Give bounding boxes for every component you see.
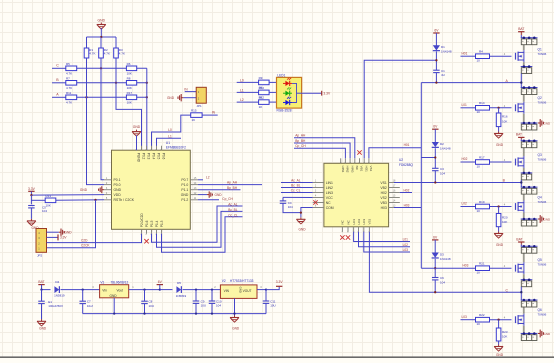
svg-text:GND: GND (98, 18, 106, 22)
wire HO1 from U2 pin7 with H01 label (369, 143, 421, 158)
svg-text:Ac_AL: Ac_AL (228, 203, 238, 207)
U2 right pins VS1 VB2 HO2 VS2 VB3 HO3 (380, 180, 399, 210)
svg-text:P0.4: P0.4 (152, 153, 156, 160)
resistor R6 (126, 62, 136, 76)
resistor R11 (66, 91, 77, 105)
svg-text:VIN: VIN (224, 289, 230, 293)
node A row (52, 93, 148, 99)
svg-text:GND: GND (110, 294, 118, 298)
svg-text:LED1: LED1 (277, 73, 285, 77)
svg-text:GND: GND (232, 326, 240, 330)
U1 left pins P0.1 P0.0 GND VDD RSTb (104, 177, 135, 202)
wire to D5 (160, 289, 173, 291)
svg-text:R13: R13 (46, 194, 52, 198)
wire V2 GND down (234, 298, 236, 315)
svg-text:3.3V: 3.3V (276, 280, 284, 284)
wire from MCU P0.4 to R15 (152, 115, 191, 150)
LED blue element (283, 97, 292, 105)
wire R3 column to MCU P0.2 (116, 58, 142, 150)
svg-text:GND: GND (298, 228, 306, 232)
svg-text:L01: L01 (403, 238, 409, 242)
wire R21 to Q5 gate (490, 264, 512, 268)
ground GND below C5 (27, 219, 39, 230)
svg-text:VDD: VDD (114, 193, 122, 197)
wire JP1 pin1 (185, 91, 197, 93)
svg-text:10: 10 (477, 271, 481, 275)
svg-text:R17: R17 (479, 155, 485, 159)
resistor R12 (259, 96, 270, 110)
svg-text:EFM8BB10F2: EFM8BB10F2 (166, 146, 186, 150)
svg-text:100uF/50V: 100uF/50V (48, 304, 63, 308)
svg-text:VS1: VS1 (380, 181, 387, 185)
wire R13 to RSTb (56, 199, 104, 201)
svg-text:P1.2: P1.2 (181, 198, 188, 202)
svg-text:4.7K: 4.7K (66, 86, 72, 90)
LED green element (283, 87, 292, 95)
wire LO2 to L02 label (359, 232, 411, 247)
svg-text:C3: C3 (440, 167, 444, 171)
svg-text:1N4148: 1N4148 (441, 50, 452, 54)
power 3.3V at JP2 pin3 (47, 234, 68, 240)
resistor R17 (126, 91, 136, 105)
capacitor C1 (433, 69, 445, 83)
wire ground rail (83, 312, 266, 314)
svg-text:P0.7: P0.7 (181, 178, 188, 182)
transistor Q5 high-side phase C (514, 245, 547, 282)
svg-text:C1: C1 (441, 69, 445, 73)
resistor R1 (84, 37, 95, 58)
resistor R20 pulldown (496, 207, 508, 232)
svg-text:3.3V: 3.3V (28, 187, 36, 191)
svg-text:C2D: C2D (81, 238, 88, 242)
svg-text:C4: C4 (288, 201, 292, 205)
op-amp U1 MCU EFM8BB10F2 body (112, 150, 191, 229)
resistor R15 (191, 108, 202, 122)
svg-text:GND: GND (544, 332, 552, 336)
power 3.3V at LED1 (302, 91, 331, 96)
transistor Q2 low-side phase A (514, 86, 547, 123)
net label L03 and wire to R22 (461, 315, 476, 320)
bottom window border (0, 356, 554, 358)
svg-text:LO2: LO2 (357, 218, 361, 224)
svg-text:H03: H03 (404, 203, 410, 207)
capacitor C3 (432, 167, 445, 183)
svg-text:GND: GND (496, 143, 504, 147)
svg-text:R8: R8 (127, 76, 131, 80)
net label L2 on P0.7 (198, 176, 210, 180)
wire H03 row to R21 (421, 267, 475, 269)
svg-text:VS3: VS3 (368, 218, 372, 224)
svg-text:10U: 10U (270, 304, 276, 308)
net label L0 (168, 128, 172, 132)
svg-text:VB1: VB1 (360, 166, 364, 172)
junction dot C line (434, 288, 508, 293)
U2 left pins LIN1-3 VCC NC COM (313, 180, 334, 210)
svg-text:10: 10 (477, 110, 481, 114)
Q3 source pads to phase B node (520, 172, 532, 187)
wire Ap_AH into HIN pin (294, 134, 355, 159)
wire D4 to V1 (61, 285, 100, 291)
net label L0 wire to R9 (237, 78, 259, 82)
wire D1 to C1 (435, 52, 437, 71)
svg-text:BAT: BAT (516, 133, 522, 137)
wire JP2 pin2 C2D to MCU (47, 234, 142, 243)
svg-text:D3: D3 (440, 253, 444, 257)
svg-text:Vout: Vout (117, 288, 123, 292)
ground GND below U2 COM (296, 217, 306, 231)
svg-text:VOUT: VOUT (243, 289, 252, 293)
svg-text:D4: D4 (55, 280, 59, 284)
diode D5 1N5819 (176, 281, 187, 298)
svg-text:GND: GND (114, 188, 122, 192)
svg-text:70N06: 70N06 (538, 262, 547, 266)
svg-text:Q4: Q4 (538, 196, 542, 200)
U1 bottom pins P2.0/C2D P1.6 P1.5 P1.4 P1.3 (140, 213, 164, 236)
transistor Q3 high-side phase B (514, 139, 547, 175)
svg-text:GND: GND (167, 96, 175, 100)
wire phase A line (421, 79, 521, 84)
svg-text:GND: GND (238, 287, 242, 293)
diode D3 1N4148 (432, 253, 451, 261)
svg-text:R16: R16 (502, 115, 508, 119)
svg-text:H02: H02 (381, 191, 387, 195)
svg-text:P1.6: P1.6 (145, 220, 149, 227)
svg-text:4.7K: 4.7K (66, 101, 72, 105)
svg-text:L1: L1 (240, 88, 244, 92)
wire right riser (420, 83, 422, 269)
wire COM to ground (300, 208, 313, 218)
svg-text:70N06: 70N06 (538, 157, 547, 161)
wire H02 stub from U2 (400, 188, 412, 192)
svg-text:Cc_CL: Cc_CL (291, 189, 301, 193)
svg-text:BAT: BAT (38, 280, 44, 284)
svg-text:VB2: VB2 (380, 186, 387, 190)
resistor R10 (259, 86, 270, 100)
wire R22 to Q6 gate (490, 316, 512, 321)
power 6V rail tap (157, 280, 163, 291)
svg-text:70N06: 70N06 (538, 100, 547, 104)
svg-text:10: 10 (477, 322, 481, 326)
resistor R4 (476, 50, 490, 63)
resistor R3 (114, 37, 125, 58)
svg-text:Q6: Q6 (538, 308, 542, 312)
wire VB2 link (421, 157, 435, 159)
svg-text:78L06/08/12: 78L06/08/12 (111, 280, 129, 284)
svg-text:Ap_AH: Ap_AH (227, 181, 238, 185)
wire 3.3V to R13 and C5 (31, 195, 45, 204)
capacitor C8 (141, 290, 154, 314)
regulator V1 78L06 (100, 280, 129, 298)
svg-text:U2: U2 (399, 158, 403, 162)
svg-text:C2CK: C2CK (81, 244, 90, 248)
wire VB1 riser from U2 pin6 (364, 60, 436, 158)
wire D5 to V2 (183, 285, 221, 291)
svg-text:VCC: VCC (326, 196, 334, 200)
svg-text:10K: 10K (46, 204, 51, 208)
svg-text:3.3V: 3.3V (60, 236, 67, 240)
net label C2CK (81, 244, 90, 248)
svg-text:HIN1: HIN1 (341, 166, 345, 173)
svg-text:R6: R6 (127, 62, 131, 66)
svg-text:R9: R9 (259, 76, 263, 80)
svg-text:L03: L03 (462, 315, 468, 319)
wire top bus (87, 36, 117, 38)
svg-text:H01: H01 (462, 51, 468, 55)
wire Bc_BL from P1.4 (157, 208, 243, 247)
svg-text:P0.0: P0.0 (114, 183, 121, 187)
svg-text:V2: V2 (222, 279, 226, 283)
diode D2 1N4148 (432, 142, 451, 150)
svg-text:10K: 10K (127, 101, 132, 105)
U1 top pins PGND P0.2-P0.6 (135, 146, 166, 163)
wire R12 to LED1 (269, 101, 276, 103)
resistor R7 (66, 76, 77, 90)
svg-text:VS2: VS2 (380, 196, 387, 200)
svg-text:RGB-3528: RGB-3528 (277, 109, 292, 113)
svg-text:4.7K: 4.7K (104, 52, 110, 56)
svg-text:HT7533/HT7133: HT7533/HT7133 (230, 279, 254, 283)
node C row (52, 64, 147, 70)
svg-text:P2.0/C2D: P2.0/C2D (140, 213, 144, 228)
capacitor C9 (193, 290, 206, 314)
resistor R8 (126, 76, 136, 90)
svg-text:1N5819: 1N5819 (54, 293, 65, 297)
svg-text:Q2: Q2 (538, 96, 542, 100)
wire R1 column to MCU P0.0 (87, 58, 105, 185)
svg-text:H03: H03 (463, 264, 469, 268)
wire RSTb to JP2 C2CK (47, 200, 96, 248)
wire R17 to Q3 gate (490, 158, 512, 162)
svg-text:BAT: BAT (516, 237, 522, 241)
LED red element (283, 78, 292, 86)
junction dot B line (434, 179, 505, 184)
svg-text:P1.3: P1.3 (160, 220, 164, 227)
Q2 source pads and ground (521, 119, 551, 130)
svg-text:D5: D5 (177, 281, 181, 285)
svg-text:R17: R17 (127, 91, 133, 95)
svg-text:10K: 10K (127, 86, 132, 90)
svg-text:GND: GND (80, 188, 88, 192)
Q6 source pads and ground (521, 330, 551, 341)
svg-text:GND: GND (544, 217, 552, 221)
wire Bp_BH from P1.1 (198, 186, 241, 190)
svg-text:4.7K: 4.7K (119, 52, 125, 56)
wire Cp_CH from P1.2 (198, 197, 233, 201)
svg-text:P0.6: P0.6 (162, 153, 166, 160)
resistor R2 (99, 37, 110, 58)
svg-text:Cc_CL: Cc_CL (228, 213, 238, 217)
svg-text:L1: L1 (168, 135, 172, 139)
power BAT phase B (516, 133, 525, 141)
wire Ac_AL to LIN1 (281, 179, 313, 183)
resistor R22 (476, 313, 490, 326)
transistor Q1 high-side phase A (514, 36, 547, 69)
ground sideways at U1 right GND pin12 (198, 191, 222, 197)
svg-text:C6: C6 (440, 276, 444, 280)
wire VS1 B line (394, 182, 521, 184)
resistor R21 gate (463, 262, 490, 275)
svg-text:P0.3: P0.3 (147, 153, 151, 160)
capacitor C11 (263, 290, 276, 314)
net label L1 wire to R10 (237, 88, 259, 92)
capacitor C10 (209, 290, 222, 314)
svg-text:GND: GND (181, 193, 189, 197)
svg-text:LIN2: LIN2 (326, 186, 333, 190)
ground GND below V2 (230, 316, 240, 331)
wire V1 out (129, 285, 160, 291)
power BAT phase A (518, 27, 524, 38)
wire neutral bus to MCU P0.3 (146, 68, 148, 150)
svg-text:104: 104 (288, 205, 293, 209)
svg-text:104: 104 (216, 304, 221, 308)
wire HO3 from U2 with H03 label (394, 203, 421, 207)
svg-text:R11: R11 (66, 91, 72, 95)
svg-text:Ap_AH: Ap_AH (295, 134, 306, 138)
resistor R14 (476, 101, 490, 114)
wire Ac_AL from P1.5 (152, 203, 243, 243)
regulator V2 HT7533 (220, 279, 257, 298)
svg-text:Bc_BL: Bc_BL (228, 208, 238, 212)
wire Bp_BH into HIN pin (294, 139, 350, 159)
svg-text:V1: V1 (100, 280, 104, 284)
svg-text:10K: 10K (127, 72, 132, 76)
diode D1 1N4148 (433, 45, 452, 53)
svg-text:H03: H03 (381, 206, 387, 210)
Q4 source pads and ground (521, 215, 551, 226)
svg-text:Q3: Q3 (538, 153, 542, 157)
capacitor C4 (280, 197, 313, 212)
ground sideways at U1 GND pin3 (80, 186, 104, 193)
wire R2 column to MCU P0.1 (101, 58, 104, 180)
svg-text:70N06: 70N06 (538, 312, 547, 316)
wire VS3 to phase C node (369, 232, 521, 292)
svg-text:10K: 10K (502, 335, 507, 339)
svg-text:Bc_BL: Bc_BL (291, 184, 301, 188)
LED LED1 RGB-3528 body (277, 73, 302, 112)
resistor R23 pulldown (496, 320, 508, 345)
svg-text:GND: GND (544, 121, 552, 125)
svg-text:GND: GND (39, 326, 47, 330)
svg-text:L01: L01 (462, 103, 468, 107)
svg-text:R19: R19 (479, 200, 485, 204)
LED common cathode wire (292, 83, 302, 102)
svg-text:10: 10 (477, 59, 481, 63)
svg-text:Ac_AL: Ac_AL (291, 179, 301, 183)
connector JP1 (196, 87, 206, 108)
svg-text:H02: H02 (404, 188, 410, 192)
svg-text:L2: L2 (240, 98, 244, 102)
svg-text:Cp_CH: Cp_CH (295, 144, 306, 148)
svg-text:R14: R14 (479, 101, 485, 105)
svg-text:10uf: 10uf (87, 304, 93, 308)
ground GND below R23 (494, 345, 504, 357)
svg-text:P0.2: P0.2 (142, 153, 146, 160)
svg-text:1K: 1K (259, 105, 263, 109)
svg-text:1N5819: 1N5819 (176, 294, 187, 298)
svg-text:LO1: LO1 (352, 218, 356, 224)
wire Cp_CH into HIN pin (294, 144, 345, 158)
capacitor C7 (79, 290, 92, 314)
svg-text:L0: L0 (240, 78, 244, 82)
wire VDD line (30, 194, 104, 196)
U2 top pins (339, 158, 373, 172)
U2 bottom pins NC NC LO1 LO2 LO3 VS3 (341, 218, 372, 233)
capacitor C6 (432, 276, 445, 292)
wire D2 to C3 (434, 148, 436, 168)
svg-text:D2: D2 (440, 142, 444, 146)
svg-text:R5: R5 (66, 62, 70, 66)
connector JP2 (36, 229, 47, 258)
wire R19 to Q4 gate (490, 203, 512, 208)
resistor R5 (66, 62, 77, 76)
svg-text:10U: 10U (201, 304, 207, 308)
wire from MCU P0.5 stub L1 (157, 135, 182, 151)
svg-text:HIN2: HIN2 (346, 166, 350, 173)
svg-text:P1.5: P1.5 (150, 220, 154, 227)
resistor R9 (259, 76, 270, 90)
svg-text:R12: R12 (259, 96, 265, 100)
svg-text:HO1: HO1 (364, 166, 368, 173)
wire R10 to LED1 (269, 91, 276, 93)
svg-text:L0: L0 (168, 128, 172, 132)
U1 right pins P0.7 P1.0 P1.1 GND P1.2 (181, 177, 198, 202)
svg-text:VB3: VB3 (380, 201, 387, 205)
svg-text:L02: L02 (462, 202, 468, 206)
svg-text:R22: R22 (479, 313, 485, 317)
power 6V bootstrap B (432, 125, 438, 143)
svg-text:10: 10 (477, 164, 481, 168)
ground GND above U1 PGND pin (132, 125, 141, 150)
svg-text:3.3V: 3.3V (323, 92, 331, 96)
ground GND at JP1 pin2 (167, 94, 196, 101)
resistor R17 gate (476, 155, 490, 168)
svg-text:C: C (56, 64, 59, 68)
net label H02 and wire to R17 gate (461, 157, 476, 162)
Q1 source pads to phase A node (520, 65, 532, 87)
wire R14 to Q2 gate (490, 104, 512, 109)
net label IN (JP1) (184, 87, 188, 91)
svg-text:RSTb / C2CK: RSTb / C2CK (114, 198, 135, 202)
no-connect X on U2 bottom pins (340, 235, 350, 239)
no-connect X on U2 NC left pin (313, 200, 317, 204)
svg-text:HIN3: HIN3 (350, 166, 354, 173)
svg-text:COM: COM (326, 206, 334, 210)
wire R15 to IN (202, 111, 218, 116)
svg-text:LO3: LO3 (362, 218, 366, 224)
power 3.3V at VDD (28, 187, 36, 195)
no-connect X on U2 top pin5 (357, 150, 361, 154)
svg-text:P0.5: P0.5 (157, 153, 161, 160)
svg-text:GND: GND (496, 353, 504, 357)
svg-text:R10: R10 (259, 86, 265, 90)
ground GND below E1 (37, 319, 47, 330)
svg-text:104: 104 (42, 209, 47, 213)
svg-text:Bp_BH: Bp_BH (227, 186, 238, 190)
wire R4 to Q1 gate (490, 52, 512, 56)
svg-text:GND: GND (215, 193, 223, 197)
svg-text:P1.0: P1.0 (181, 183, 188, 187)
net label L2 wire to R12 (237, 98, 259, 102)
U2 designator (399, 158, 413, 167)
svg-text:1K: 1K (192, 118, 196, 122)
Q5 source pads to phase C node (520, 278, 532, 300)
svg-text:D1: D1 (441, 45, 445, 49)
transistor Q4 low-side phase B (514, 186, 547, 220)
svg-text:70N06: 70N06 (538, 200, 547, 204)
svg-text:GND: GND (133, 125, 141, 129)
svg-text:GND: GND (496, 243, 504, 247)
transistor Q6 low-side phase C (514, 299, 547, 334)
